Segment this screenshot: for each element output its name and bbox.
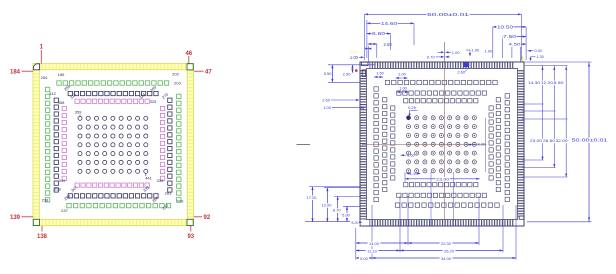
- svg-text:6.60: 6.60: [372, 31, 386, 36]
- svg-text:17.20: 17.20: [306, 195, 317, 200]
- dim 4.50: [511, 44, 513, 58]
- svg-text:2.60: 2.60: [458, 71, 465, 75]
- dims 17.20 / 12.00 / 8.70 / 5.90 bottom-left: [305, 221, 360, 223]
- svg-text:2.00: 2.00: [398, 73, 405, 77]
- svg-text:10.50: 10.50: [497, 24, 514, 29]
- dim 2.50 left: [352, 65, 354, 73]
- svg-text:0.60: 0.60: [407, 152, 416, 157]
- pad ring pins 313-358 (magenta) top row: [75, 99, 149, 103]
- pin 1 red dot: [355, 69, 358, 72]
- pad step bottom-right: [519, 216, 524, 219]
- bottom dim chains: [355, 228, 357, 260]
- svg-text:139: 139: [10, 215, 21, 221]
- dark ring left column: [54, 98, 58, 192]
- dim 0.79 / 1.60 top-center: [444, 42, 446, 69]
- svg-text:6.20: 6.20: [352, 221, 359, 225]
- svg-text:11.10: 11.10: [367, 249, 377, 254]
- dark ring right column: [168, 98, 172, 192]
- svg-text:202: 202: [172, 72, 179, 77]
- svg-text:23.00: 23.00: [530, 138, 543, 143]
- svg-text:8.50: 8.50: [554, 80, 565, 85]
- right lead band: [518, 70, 525, 217]
- dark ring bottom row: [68, 194, 158, 198]
- svg-text:8.70: 8.70: [333, 208, 342, 213]
- svg-text:219: 219: [177, 199, 184, 204]
- svg-text:1.00: 1.00: [323, 105, 332, 110]
- svg-text:299: 299: [54, 186, 61, 191]
- dim 2.50: [376, 44, 378, 58]
- pad ring pins 255-312 (dark) top row: [68, 91, 158, 95]
- svg-text:359: 359: [75, 110, 82, 115]
- center via/ball grid pins 359-441: [78, 116, 148, 173]
- top lead band: [370, 62, 515, 69]
- pin 92 marker: [194, 216, 202, 218]
- svg-text:34.00: 34.00: [441, 256, 452, 261]
- outer pad ring pins 1-184 (yellow band): [33, 64, 194, 226]
- pin 46 marker: [188, 56, 190, 64]
- svg-text:358: 358: [58, 100, 65, 105]
- center lines: [444, 69, 446, 227]
- svg-text:14.30: 14.30: [528, 80, 541, 85]
- svg-text:14.00: 14.00: [369, 241, 380, 246]
- svg-text:185: 185: [58, 72, 65, 77]
- svg-text:92: 92: [204, 215, 211, 221]
- svg-text:1.00: 1.00: [399, 87, 406, 91]
- center hole grid with drill marks: [406, 116, 476, 173]
- svg-text:184: 184: [10, 69, 21, 75]
- svg-text:237: 237: [61, 208, 68, 213]
- corner mark bottom-right: [187, 219, 193, 225]
- svg-text:2.50: 2.50: [384, 42, 393, 47]
- dim 11.10 / 26.20: [356, 250, 400, 252]
- svg-text:5.90: 5.90: [342, 213, 351, 218]
- left lead band: [360, 70, 367, 220]
- grid zone boundary line: [485, 118, 487, 172]
- svg-text:0.29: 0.29: [408, 105, 417, 110]
- svg-text:1.00: 1.00: [350, 55, 359, 60]
- svg-text:238: 238: [42, 198, 49, 203]
- left footprint view: [10, 45, 212, 241]
- svg-text:47: 47: [205, 69, 212, 75]
- callout 1.10: [406, 172, 409, 174]
- svg-text:46: 46: [185, 51, 192, 57]
- svg-text:138: 138: [37, 234, 48, 240]
- package body outline: [360, 62, 524, 226]
- pad ring pins 185-254 (green) top row: [57, 81, 169, 85]
- magenta ring left column: [62, 106, 66, 180]
- dim 6.60: [390, 34, 392, 50]
- svg-text:1: 1: [40, 45, 44, 51]
- svg-text:1.00: 1.00: [485, 49, 494, 54]
- green ring right column: [177, 94, 181, 202]
- svg-text:14.60: 14.60: [381, 21, 398, 26]
- dim 50.00±0.01 right: [524, 61, 592, 63]
- pin 47 marker: [194, 70, 204, 72]
- dim 50.00±0.01 top: [364, 14, 366, 60]
- green ring left column: [45, 87, 49, 202]
- svg-text:50.00±0.01: 50.00±0.01: [427, 12, 470, 17]
- magenta ring right column: [160, 106, 164, 180]
- svg-text:23.00: 23.00: [436, 176, 450, 181]
- svg-text:203: 203: [174, 81, 181, 86]
- dim 14.00 / 22.30: [356, 242, 408, 244]
- svg-text:5.50: 5.50: [324, 71, 333, 76]
- svg-text:336: 336: [157, 178, 164, 183]
- pin 184 marker: [22, 70, 34, 72]
- pin 1 corner chamfer mark: [33, 64, 39, 70]
- svg-text:2.60: 2.60: [322, 98, 331, 103]
- svg-text:254: 254: [41, 75, 48, 80]
- pin 93 marker: [190, 226, 192, 232]
- svg-text:312: 312: [49, 91, 56, 96]
- svg-text:313: 313: [69, 91, 78, 100]
- svg-text:1.00: 1.00: [472, 48, 481, 53]
- svg-text:32.00: 32.00: [556, 138, 569, 143]
- svg-text:441: 441: [145, 176, 152, 181]
- dim 10.50: [492, 27, 494, 58]
- svg-text:12.00: 12.00: [321, 203, 332, 208]
- svg-text:255: 255: [63, 83, 72, 92]
- svg-text:349: 349: [59, 178, 66, 183]
- svg-text:7.50: 7.50: [503, 34, 517, 39]
- dim 5.50: [328, 64, 375, 66]
- pin 1 marker: [40, 50, 42, 64]
- inner pad ring rows/cols (drawing): [374, 80, 510, 207]
- pin 139 marker: [22, 216, 34, 218]
- pin 138 marker: [41, 226, 43, 232]
- svg-text:0.30: 0.30: [535, 49, 542, 53]
- right vertical dims 14.30/12.00/8.50 + 23.00/26.60/32.00: [524, 65, 568, 67]
- pad mark yellow: [521, 57, 523, 62]
- dim 20.00 inner: [404, 172, 406, 182]
- green ring bottom row: [67, 203, 171, 207]
- svg-text:2.50: 2.50: [343, 72, 352, 77]
- dim 2.60 right-top: [464, 62, 470, 67]
- svg-text:5.00: 5.00: [360, 256, 369, 261]
- bottom lead band: [370, 220, 515, 227]
- svg-text:26.20: 26.20: [444, 249, 455, 254]
- pin pad at top-left corner: [361, 62, 368, 65]
- corner mark top-right: [187, 64, 193, 70]
- svg-text:22.30: 22.30: [441, 241, 452, 246]
- svg-text:4.50: 4.50: [509, 42, 522, 47]
- svg-text:93: 93: [187, 234, 194, 240]
- dim 14.60: [413, 23, 415, 45]
- svg-text:26.60: 26.60: [543, 138, 556, 143]
- svg-text:325: 325: [150, 99, 157, 104]
- svg-text:347: 347: [70, 184, 79, 193]
- svg-text:0.70: 0.70: [427, 55, 436, 60]
- right dimensioned package drawing: [297, 12, 609, 261]
- svg-text:1.30: 1.30: [537, 55, 544, 59]
- svg-text:1.50: 1.50: [376, 72, 383, 76]
- dim 6.20: [350, 221, 360, 225]
- svg-text:8.00: 8.00: [478, 141, 487, 146]
- svg-text:50.00±0.01: 50.00±0.01: [572, 138, 609, 143]
- svg-text:1.00: 1.00: [452, 50, 461, 55]
- dim 5.00 / 34.00: [356, 257, 372, 259]
- svg-text:12.00: 12.00: [541, 80, 554, 85]
- svg-text:283: 283: [165, 191, 172, 196]
- dim 7.50: [501, 37, 503, 58]
- svg-text:270: 270: [161, 91, 170, 100]
- magenta ring bottom row: [75, 183, 149, 187]
- corner mark bottom-left: [33, 219, 39, 225]
